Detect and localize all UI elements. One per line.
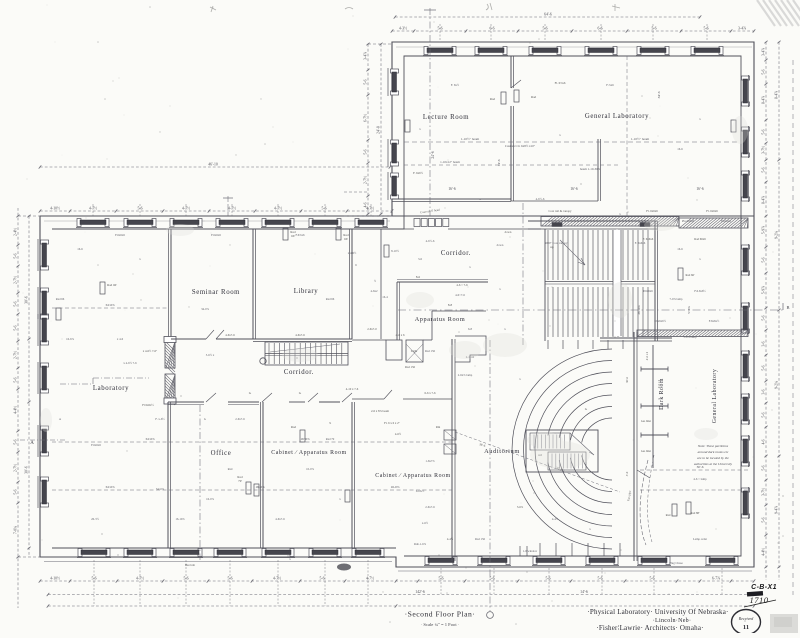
center line vertical auditorium: [489, 340, 491, 611]
svg-text:16'-6: 16'-6: [696, 187, 703, 191]
svg-text:Rad 156: Rad 156: [425, 349, 436, 353]
window: [169, 219, 203, 228]
svg-text:16'-0⅞: 16'-0⅞: [255, 485, 265, 489]
wall cabinet1 east: [351, 402, 353, 548]
radiator: [336, 228, 341, 240]
svg-text:4-4½: 4-4½: [13, 406, 17, 414]
svg-text:5-6: 5-6: [761, 167, 765, 172]
svg-text:B: B: [786, 305, 789, 310]
svg-text:3-6: 3-6: [761, 341, 765, 346]
svg-text:9-2¾: 9-2¾: [774, 381, 778, 389]
radiator: [384, 245, 389, 257]
svg-text:Cabinet ∕ Apparatus Room: Cabinet ∕ Apparatus Room: [271, 450, 346, 456]
wall office / cabinet1: [262, 402, 264, 548]
grand stair walls: [528, 220, 657, 222]
svg-text:5-6: 5-6: [13, 325, 17, 330]
svg-text:9-4⅞: 9-4⅞: [774, 506, 778, 514]
grand stair door marks: [552, 223, 562, 227]
svg-text:beam 1-10-36⅞: beam 1-10-36⅞: [580, 167, 601, 171]
auditorium diagonal sight line: [455, 432, 620, 492]
svg-text:16-6: 16-6: [77, 247, 83, 251]
svg-text:30'-6: 30'-6: [24, 466, 28, 474]
svg-text:14'-6: 14'-6: [497, 159, 501, 166]
window: [123, 219, 157, 228]
radiator: [300, 430, 305, 442]
window: [742, 244, 750, 276]
svg-text:Rad: Rad: [531, 95, 537, 99]
svg-text:4000″ Coat canopy: 4000″ Coat canopy: [544, 241, 568, 245]
svg-text:4-4½: 4-4½: [761, 548, 765, 556]
left corner extension: [18, 215, 40, 217]
window: [742, 170, 750, 202]
grand stair upper flight treads: [548, 230, 648, 280]
ink blot: [747, 591, 763, 597]
svg-text:Seminar Room: Seminar Room: [192, 289, 240, 296]
svg-text:Rad: Rad: [490, 97, 496, 101]
scatter annotations: [56, 83, 732, 565]
svg-text:Fl. 6⅞x6: Fl. 6⅞x6: [555, 81, 566, 85]
window: [742, 435, 750, 467]
door boxes auditorium west: [444, 430, 456, 440]
window: [585, 557, 619, 566]
svg-text:66': 66': [344, 237, 348, 241]
wall office west: [167, 402, 169, 548]
svg-text:·Physical Laboratory· Universi: ·Physical Laboratory· University Of Nebr…: [587, 608, 728, 616]
svg-text:5-6½ x: 5-6½ x: [206, 353, 215, 357]
window: [261, 219, 295, 228]
window: [742, 126, 750, 158]
svg-text:4-6: 4-6: [363, 202, 367, 207]
svg-text:5-6: 5-6: [761, 412, 765, 417]
svg-text:Laboratory: Laboratory: [93, 385, 129, 392]
window: [636, 47, 670, 56]
svg-text:16-0⅞: 16-0⅞: [206, 497, 214, 501]
svg-text:around dark rooms etc: around dark rooms etc: [698, 450, 729, 454]
grand stair lower flight treads: [548, 287, 648, 337]
svg-text:5-6: 5-6: [321, 207, 326, 211]
svg-text:34'-0⅞: 34'-0⅞: [105, 303, 115, 307]
wall laboratory / seminar room: [170, 229, 172, 339]
window: [38, 239, 49, 271]
dimension line: [24, 215, 30, 557]
auditorium seat row stubs bottom: [539, 543, 541, 556]
window extension ticks top: [92, 204, 94, 216]
svg-text:Coat rail & canopy: Coat rail & canopy: [549, 209, 572, 213]
ink blot bottom wall: [337, 564, 351, 571]
svg-text:F.6x6x6: F.6x6x6: [91, 443, 101, 447]
hatched wall: [679, 218, 748, 228]
svg-text:1-10x12″ beam: 1-10x12″ beam: [440, 160, 460, 164]
closet boxes middle: [386, 340, 402, 360]
apparatus room south walls: [352, 339, 386, 341]
svg-text:Custom Cil. 6x8½ x10″: Custom Cil. 6x8½ x10″: [505, 144, 536, 148]
apparatus room west wall: [396, 282, 398, 340]
svg-text:14'-6: 14'-6: [580, 590, 588, 594]
dimension line: [39, 163, 392, 169]
dashed line right section: [640, 469, 750, 471]
svg-text:2-6x⅞ lamp: 2-6x⅞ lamp: [458, 373, 473, 377]
svg-text:30'-6: 30'-6: [24, 296, 28, 304]
window: [742, 487, 750, 519]
window: [169, 549, 203, 558]
hatched wall: [165, 374, 175, 400]
svg-text:46'-10: 46'-10: [208, 163, 218, 167]
window: [742, 393, 750, 425]
svg-text:3'-0: 3'-0: [625, 471, 629, 476]
dimension line: [39, 207, 394, 213]
svg-text:F.⅞x6: F.⅞x6: [606, 83, 614, 87]
svg-text:5-6: 5-6: [651, 27, 656, 31]
svg-text:4-6 × 7-6: 4-6 × 7-6: [456, 283, 468, 287]
svg-text:General Laboratory: General Laboratory: [585, 113, 649, 120]
svg-text:Rad 156: Rad 156: [475, 537, 486, 541]
scan smudge top right: [757, 0, 800, 26]
svg-text:5-6: 5-6: [13, 253, 17, 258]
svg-text:3-6⅞: 3-6⅞: [517, 505, 524, 509]
gas pipe curves: [640, 460, 648, 545]
hatched wall: [637, 330, 748, 337]
window: [742, 75, 750, 107]
svg-text:F.6.6x6½: F.6.6x6½: [694, 289, 706, 293]
svg-text:4-6: 4-6: [761, 439, 765, 444]
svg-text:5-6: 5-6: [363, 149, 367, 154]
svg-text:Corridor.: Corridor.: [284, 369, 314, 376]
svg-text:4-6x2: 4-6x2: [371, 289, 378, 293]
svg-text:Office: Office: [211, 450, 232, 457]
window: [388, 172, 399, 200]
svg-text:3-6: 3-6: [418, 257, 422, 261]
svg-text:24'-8: 24'-8: [376, 126, 380, 134]
radiator: [246, 482, 251, 494]
window: [424, 557, 458, 566]
grand stair landing: [545, 281, 655, 283]
svg-text:General Laboratory: General Laboratory: [712, 369, 718, 424]
svg-text:4-7½: 4-7½: [273, 577, 281, 581]
svg-text:6-7⅞: 6-7⅞: [712, 577, 720, 581]
svg-text:F. 6x½: F. 6x½: [451, 83, 460, 87]
svg-text:3-6: 3-6: [761, 389, 765, 394]
svg-text:4-6 × lamp: 4-6 × lamp: [693, 477, 707, 481]
svg-text:4-3½: 4-3½: [399, 27, 407, 31]
svg-text:8-10½: 8-10½: [391, 249, 399, 253]
svg-text:P.6x6x6: P.6x6x6: [643, 289, 653, 293]
apparatus room north wall: [397, 281, 488, 283]
svg-text:P.6x6x6½: P.6x6x6½: [654, 319, 667, 323]
svg-text:Received: Received: [738, 616, 754, 621]
svg-text:5-0⅞ lamp: 5-0⅞ lamp: [684, 335, 697, 339]
svg-text:16'-6: 16'-6: [570, 187, 577, 191]
wall auditorium east: [633, 332, 635, 561]
wall sill lines: [44, 561, 392, 563]
dimension line: [774, 41, 780, 580]
svg-text:5-6: 5-6: [761, 129, 765, 134]
door lecture room: [511, 80, 521, 88]
svg-text:16'-0⅞: 16'-0⅞: [300, 437, 310, 441]
svg-text:down: down: [505, 230, 512, 234]
dashed line office row mid: [52, 441, 452, 443]
svg-text:5-6: 5-6: [545, 577, 550, 581]
svg-text:Plug Chase: Plug Chase: [669, 561, 683, 565]
svg-text:4-6x7-6: 4-6x7-6: [225, 333, 235, 337]
svg-text:Rad 66: Rad 66: [326, 297, 335, 301]
dimension line: [761, 41, 767, 580]
svg-text:·Second Floor Plan·: ·Second Floor Plan·: [405, 610, 476, 619]
svg-text:5-6: 5-6: [761, 257, 765, 262]
radiator: [731, 120, 736, 132]
svg-text:4-10½: 4-10½: [50, 207, 60, 211]
window: [308, 219, 342, 228]
svg-text:3-7½: 3-7½: [761, 488, 765, 496]
wall lecture room south: [392, 198, 511, 200]
svg-text:4-6x7-6: 4-6x7-6: [275, 517, 285, 521]
radiator: [345, 490, 350, 502]
faint pencil marks top: [210, 3, 620, 12]
auditorium west wall: [451, 339, 453, 561]
svg-text:6-6 x 7-6: 6-6 x 7-6: [425, 391, 436, 395]
window: [742, 302, 750, 334]
svg-text:Gas Inlet: Gas Inlet: [641, 450, 651, 453]
svg-text:5-6: 5-6: [761, 517, 765, 522]
door seminar room: [206, 330, 214, 339]
radiator: [672, 504, 677, 516]
hatched wall: [165, 341, 175, 368]
auditorium entry stage box: [526, 430, 598, 472]
wing interior vertical dashed: [626, 56, 628, 216]
dashed line office row low: [52, 489, 452, 491]
window: [261, 549, 295, 558]
library stair: [260, 342, 348, 365]
svg-text:1-10½″ beam: 1-10½″ beam: [461, 137, 480, 141]
beam center line wing: [404, 141, 740, 143]
wall lecture room / general laboratory: [510, 56, 512, 88]
svg-text:10-0⅞: 10-0⅞: [306, 467, 314, 471]
svg-text:5-6: 5-6: [13, 439, 17, 444]
svg-text:Rad 66x6: Rad 66x6: [694, 237, 706, 241]
window: [423, 47, 457, 56]
svg-text:Rad: Rad: [228, 467, 233, 471]
auditorium seat row stubs top: [547, 340, 549, 349]
dashed line seminar: [52, 307, 168, 309]
svg-text:26-3½: 26-3½: [91, 517, 99, 521]
svg-text:Rad 88': Rad 88': [690, 511, 700, 515]
cabinet2 north wall: [352, 398, 384, 400]
svg-text:Rad 66': Rad 66': [685, 273, 695, 277]
svg-text:5-6: 5-6: [761, 465, 765, 470]
window: [477, 557, 511, 566]
wall library east: [351, 229, 353, 339]
svg-text:Apparatus Room: Apparatus Room: [415, 316, 466, 323]
svg-text:Corridor.: Corridor.: [441, 250, 471, 257]
center line vertical office: [199, 405, 201, 560]
dimension line: [13, 208, 19, 608]
svg-text:5-6: 5-6: [761, 69, 765, 74]
svg-text:7-0⅞ lamp: 7-0⅞ lamp: [670, 297, 683, 301]
center line marker top main wall: [227, 196, 229, 216]
svg-text:16'-6: 16'-6: [448, 187, 455, 191]
svg-text:4-10 x 7-6: 4-10 x 7-6: [346, 387, 359, 391]
window: [123, 549, 157, 558]
svg-text:4'-6 x 6: 4'-6 x 6: [395, 333, 405, 337]
svg-text:2-7½: 2-7½: [13, 276, 17, 284]
section line horizontal: [398, 309, 783, 311]
svg-text:4-6½-6: 4-6½-6: [426, 239, 435, 243]
svg-text:16-6: 16-6: [677, 247, 683, 251]
dimension line: [39, 577, 756, 583]
svg-text:9-2¾: 9-2¾: [774, 231, 778, 239]
svg-text:·Fisher∶Lawrie· Architects· Om: ·Fisher∶Lawrie· Architects· Omaha·: [596, 624, 703, 632]
svg-text:6-7½: 6-7½: [363, 114, 367, 122]
svg-text:Lamp order: Lamp order: [693, 537, 707, 541]
auditorium west step wall: [455, 336, 486, 362]
svg-text:Cabinet ∕ Apparatus Room: Cabinet ∕ Apparatus Room: [375, 473, 450, 479]
scan smudge bottom right: [770, 614, 798, 633]
svg-text:down: down: [497, 243, 504, 247]
door swings office row: [206, 393, 216, 402]
window: [637, 557, 671, 566]
wall seminar-library south: [171, 338, 206, 340]
dimension line: [391, 27, 756, 33]
wall general laboratory partial: [597, 139, 599, 201]
wing west extensions: [368, 43, 392, 45]
window extension ticks bottom: [93, 560, 95, 606]
exterior wall inner outline: [52, 56, 741, 556]
radiator: [283, 228, 296, 240]
svg-text:x 4-6: x 4-6: [117, 337, 124, 341]
svg-text:8-4⅞: 8-4⅞: [761, 196, 765, 204]
svg-text:34'-0⅞: 34'-0⅞: [156, 487, 165, 491]
svg-text:4-6×7-6: 4-6×7-6: [455, 293, 465, 297]
radiator: [254, 484, 259, 496]
corridor north wall: [392, 215, 754, 217]
window: [38, 476, 49, 508]
svg-text:4-4½: 4-4½: [552, 517, 559, 521]
svg-text:5-9⅞: 5-9⅞: [761, 286, 765, 294]
svg-text:Library: Library: [294, 288, 319, 295]
svg-text:· Scale ¼″ = 1 Foot ·: · Scale ¼″ = 1 Foot ·: [421, 622, 460, 627]
scan mottling patches: [40, 116, 748, 469]
svg-text:Rub.1-6⅞: Rub.1-6⅞: [414, 542, 427, 546]
stair hall bottom wall: [600, 337, 672, 339]
svg-text:16-4: 16-4: [382, 295, 388, 299]
svg-text:5-6: 5-6: [363, 79, 367, 84]
grand stair center rail: [616, 229, 618, 337]
window: [532, 557, 566, 566]
svg-text:Rad 156: Rad 156: [405, 365, 416, 369]
svg-text:Gas Inlet: Gas Inlet: [641, 420, 651, 423]
svg-text:3-4⅞: 3-4⅞: [761, 48, 765, 56]
svg-text:F.6x6x6: F.6x6x6: [115, 233, 125, 237]
svg-text:6-6: 6-6: [597, 27, 602, 31]
radiator: [686, 502, 691, 514]
dimension line: [394, 13, 702, 19]
svg-text:1-6x7⅞: 1-6x7⅞: [425, 459, 435, 463]
svg-text:2-7½: 2-7½: [363, 176, 367, 184]
svg-text:Plu.6x6x6: Plu.6x6x6: [682, 219, 695, 223]
svg-text:34'-6: 34'-6: [657, 91, 661, 98]
svg-text:up: up: [550, 245, 554, 249]
svg-text:34-0⅞: 34-0⅞: [201, 307, 209, 311]
svg-text:11: 11: [743, 624, 749, 631]
svg-text:4-10½: 4-10½: [50, 577, 60, 581]
svg-text:C-B-X1: C-B-X1: [751, 584, 777, 591]
svg-text:3-4⅞: 3-4⅞: [738, 27, 746, 31]
stamp sheet 11: [732, 610, 761, 635]
window: [705, 557, 739, 566]
beam line 2 wing: [404, 164, 620, 166]
svg-text:Rad: Rad: [666, 513, 671, 517]
center line vertical wing: [429, 8, 431, 216]
svg-text:are to be located by the: are to be located by the: [697, 456, 729, 460]
hatched wall: [541, 217, 679, 227]
dimension line: [363, 43, 369, 216]
svg-text:3-4⅞: 3-4⅞: [363, 52, 367, 60]
svg-text:24'-6: 24'-6: [431, 151, 435, 158]
radiator: [501, 92, 506, 104]
svg-text:16-10⅞: 16-10⅞: [175, 517, 185, 521]
svg-text:5-6: 5-6: [761, 365, 765, 370]
window: [38, 287, 49, 319]
svg-text:5-6: 5-6: [13, 301, 17, 306]
svg-text:4-6½-6: 4-6½-6: [536, 197, 545, 201]
window: [742, 350, 750, 382]
svg-text:6-8: 6-8: [468, 327, 472, 331]
svg-text:2-6x7-0: 2-6x7-0: [367, 327, 377, 331]
svg-text:34'-0⅞: 34'-0⅞: [105, 485, 115, 489]
radiator: [405, 120, 410, 132]
svg-text:16-6: 16-6: [677, 147, 683, 151]
dim col far right dashed: [792, 60, 794, 595]
svg-text:Hard rub: Hard rub: [185, 564, 196, 567]
dimension line: [376, 43, 382, 216]
svg-text:Lock½: Lock½: [416, 489, 425, 493]
window: [351, 549, 385, 558]
svg-text:64'-6: 64'-6: [544, 13, 552, 17]
svg-text:1-10½″ beam: 1-10½″ beam: [631, 137, 650, 141]
svg-text:8-4⅞: 8-4⅞: [774, 91, 778, 99]
svg-text:4-6x7-6: 4-6x7-6: [295, 333, 305, 337]
window: [77, 549, 111, 558]
window: [38, 362, 49, 394]
svg-text:Rad: Rad: [291, 425, 297, 429]
svg-text:Fl 6x6x½: Fl 6x6x½: [142, 403, 154, 407]
svg-text:F.6⅞x6: F.6⅞x6: [296, 233, 305, 237]
svg-text:79': 79': [238, 479, 242, 483]
svg-text:Rm: Rm: [436, 425, 441, 429]
window: [474, 47, 508, 56]
svg-text:Rad 66': Rad 66': [107, 283, 117, 287]
wall small room east of library: [380, 229, 382, 339]
radiator: [514, 90, 519, 102]
center line vertical stair hall: [522, 203, 524, 345]
window: [690, 47, 724, 56]
radiator: [100, 282, 105, 294]
window: [213, 549, 247, 558]
svg-text:5-6: 5-6: [13, 377, 17, 382]
window: [308, 549, 342, 558]
section line A jog: [60, 383, 93, 385]
window: [38, 425, 49, 457]
svg-text:A: A: [30, 441, 34, 446]
svg-text:F. x-6½: F. x-6½: [155, 417, 165, 421]
svg-text:x 4-6½ 7-6″: x 4-6½ 7-6″: [143, 349, 158, 353]
svg-text:4-6½: 4-6½: [395, 432, 402, 436]
svg-text:8-8: 8-8: [448, 303, 453, 307]
svg-text:x-6½: x-6½: [422, 521, 429, 525]
radiator: [56, 308, 61, 320]
svg-text:2-6 x 8⅞ beam: 2-6 x 8⅞ beam: [371, 409, 390, 413]
svg-text:2-4½: 2-4½: [13, 228, 17, 236]
svg-text:8-4⅞: 8-4⅞: [761, 96, 765, 104]
